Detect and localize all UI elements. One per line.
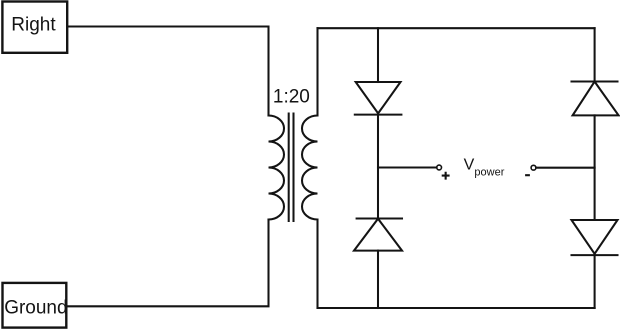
svg-text:power: power (474, 167, 504, 179)
svg-text:1:20: 1:20 (273, 86, 310, 107)
svg-text:Ground: Ground (4, 298, 67, 319)
svg-text:Right: Right (11, 14, 56, 35)
svg-text:V: V (464, 156, 475, 173)
